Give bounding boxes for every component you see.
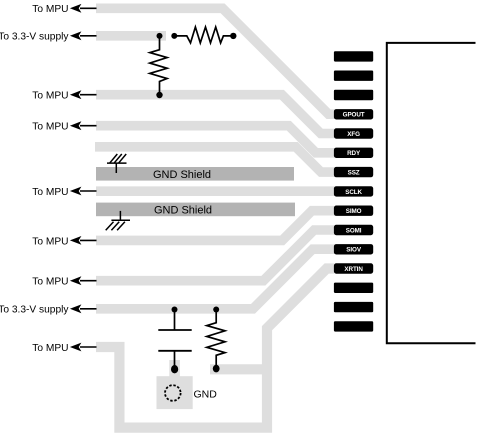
pin 2 unlabeled <box>334 71 373 81</box>
pin XFG <box>334 128 373 138</box>
pin SIOV <box>334 244 373 254</box>
label To MPU row4 <box>32 121 96 132</box>
svg-text:GND Shield: GND Shield <box>154 205 212 217</box>
label To 3.3-V supply row9 <box>0 304 97 315</box>
GND via dashed circle <box>165 385 181 401</box>
svg-text:GPOUT: GPOUT <box>343 112 365 119</box>
junction dot cap top <box>172 307 178 313</box>
svg-text:SIMO: SIMO <box>346 208 362 215</box>
svg-text:SCLK: SCLK <box>345 189 362 196</box>
svg-text:SOMI: SOMI <box>346 227 362 234</box>
svg-text:To MPU: To MPU <box>32 236 68 247</box>
GND Shield bar 1 <box>96 167 294 181</box>
pin XRTIN <box>334 263 373 273</box>
ground symbol below shield 2 <box>106 211 130 230</box>
pin 15 unlabeled <box>334 321 373 331</box>
GND Shield bar 2 <box>96 203 295 217</box>
svg-text:To MPU: To MPU <box>32 91 68 102</box>
svg-text:To MPU: To MPU <box>32 4 68 15</box>
ground symbol above shield 1 <box>107 154 127 173</box>
svg-text:SIOV: SIOV <box>346 247 362 254</box>
junction dot resistor bottom <box>213 365 220 373</box>
wire trace row3 To MPU to XFG <box>96 95 335 134</box>
junction dot resistor top <box>213 307 219 313</box>
label To MPU row3 <box>32 90 96 101</box>
svg-text:XRTIN: XRTIN <box>344 266 363 273</box>
svg-text:To MPU: To MPU <box>32 277 68 288</box>
capacitor bypass <box>158 307 191 374</box>
junction dot 3.3V trace end <box>157 33 163 39</box>
label To MPU row10 <box>32 343 96 354</box>
svg-text:SSZ: SSZ <box>348 170 360 177</box>
resistor vertical bottom <box>207 307 225 373</box>
junction dot left lead <box>171 33 177 39</box>
pin SSZ <box>334 167 373 177</box>
pin SIMO <box>334 206 373 216</box>
wire trace row2 To 3.3-V supply <box>96 31 166 41</box>
junction dot cap bottom <box>171 365 178 373</box>
junction dot right lead <box>230 33 236 39</box>
svg-text:To MPU: To MPU <box>32 343 68 354</box>
pin GPOUT <box>334 109 373 119</box>
wire trace row10 To MPU loop to XRTIN <box>96 269 335 428</box>
pin 3 unlabeled <box>334 90 373 100</box>
label To MPU row7 <box>32 236 96 247</box>
svg-text:To 3.3-V supply: To 3.3-V supply <box>0 305 69 316</box>
svg-text:RDY: RDY <box>347 150 361 157</box>
wire trace row7 To MPU to SIMO <box>96 211 335 241</box>
pin 14 unlabeled <box>334 302 373 312</box>
svg-text:To MPU: To MPU <box>32 122 68 133</box>
pin SCLK <box>334 186 373 196</box>
svg-text:GND: GND <box>194 389 218 401</box>
junction dot on row3 trace <box>156 92 162 98</box>
pin SOMI <box>334 225 373 235</box>
wire trace row6 To MPU to SCLK <box>96 186 335 196</box>
wire trace row1 To MPU to GPOUT <box>96 8 335 114</box>
pin 1 unlabeled <box>334 51 373 61</box>
wire trace row8 To MPU to SOMI <box>96 230 335 281</box>
resistor vertical between row2 and row3 <box>150 36 167 98</box>
wire trace capacitor ground stub <box>169 360 180 377</box>
wire trace row9 To 3.3-V supply to SIOV <box>96 249 335 309</box>
label To MPU row6 <box>32 187 96 198</box>
IC body outline <box>387 43 476 343</box>
svg-text:To MPU: To MPU <box>32 187 68 198</box>
pin RDY <box>334 148 373 158</box>
wire trace resistor ground branch <box>210 364 267 374</box>
label To MPU row1 <box>32 4 96 15</box>
svg-text:XFG: XFG <box>347 131 360 138</box>
svg-text:GND Shield: GND Shield <box>153 169 211 181</box>
wire trace row5 to SSZ <box>95 147 335 172</box>
label To MPU row8 <box>32 276 96 287</box>
pin 13 unlabeled <box>334 283 373 293</box>
GND island box <box>157 376 193 409</box>
label To 3.3-V supply row2 <box>0 31 97 42</box>
wire trace row4 To MPU to RDY <box>96 126 335 153</box>
svg-text:To 3.3-V supply: To 3.3-V supply <box>0 32 69 43</box>
resistor pullup horizontal <box>171 27 236 43</box>
